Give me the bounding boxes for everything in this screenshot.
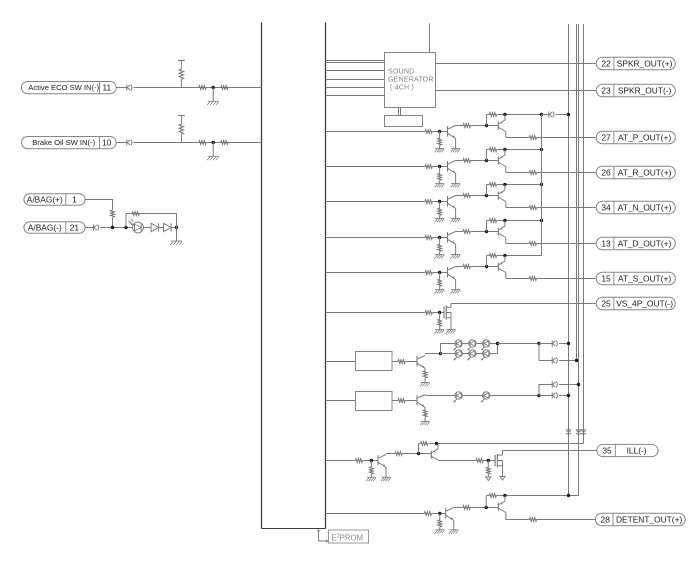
transistor Q PNP AT_R (498, 150, 506, 167)
wire AT_R output left (506, 172, 530, 174)
resistor AT_R base-emitter (489, 148, 496, 152)
resistor DETENT base pulldown (438, 514, 442, 530)
wire DETENT rail left (486, 495, 489, 497)
ground VS_4P source (446, 318, 456, 334)
resistor AT_P input series (425, 130, 432, 134)
svg-text:SPKR_OUT(+): SPKR_OUT(+) (617, 59, 673, 69)
svg-text:13: 13 (601, 239, 611, 249)
svg-text:1: 1 (72, 194, 77, 204)
connector LED B branch1 (552, 392, 557, 398)
transistor Q PNP AT_D (498, 221, 506, 238)
transistor Q NPN AT_N (448, 196, 456, 209)
connector on bus A (566, 430, 571, 434)
svg-text:ILL(-): ILL(-) (627, 446, 647, 456)
wire AT_N rail left segment (487, 184, 490, 186)
pill pin 34 AT_N_OUT(+) (596, 201, 675, 213)
transistor Q NPN DETENT (446, 508, 454, 521)
wire ECU to sound generator 1 (325, 60, 384, 62)
wire AT_R to PNP base (470, 160, 498, 162)
wire ECU to VS_4P input (325, 312, 425, 314)
LED lamp A lower 2 (467, 350, 476, 361)
wire DETENT collector line (454, 507, 463, 509)
wire DETENT PNP collector drop (505, 513, 507, 520)
wire VS_4P output (451, 303, 596, 305)
connector on bus D (581, 430, 586, 434)
node bus A DETENT (567, 494, 570, 497)
wire to NPN B base (405, 400, 417, 402)
node bus A AT supply (567, 113, 570, 116)
wire LED A right riser (497, 344, 499, 354)
wire ECU to sound generator 6 (325, 95, 384, 97)
transistor Q PNP DETENT (498, 496, 506, 513)
wire AT_N to PNP base (470, 195, 498, 197)
svg-text:Active ECO SW IN(-): Active ECO SW IN(-) (28, 83, 99, 92)
resistor ILL base pulldown (370, 461, 374, 478)
wire BrakeOil pill to connector (116, 142, 127, 144)
LED lamp A upper 2 (467, 340, 476, 351)
node AT_D emitter rail node (503, 219, 506, 222)
ground AT_N emitter (451, 208, 461, 222)
wire AT_R base node riser (486, 150, 488, 161)
wire A/BAG LED to diode (143, 227, 151, 229)
connector LED A branch2 (552, 357, 557, 363)
ground AT_P emitter (451, 138, 461, 152)
wire ILL rail left (419, 443, 420, 445)
wire ILL PNP collector drop (438, 460, 440, 462)
node A/BAG junction 2 (124, 226, 127, 229)
wire ILL input to base (363, 460, 378, 462)
pill pin 23 SPKR_OUT(-) (596, 84, 675, 96)
wire A/BAG resistor to node (112, 218, 114, 228)
wire BrakeOil to ECU (134, 142, 262, 144)
wire A/BAG bypass top (126, 213, 177, 215)
resistor DETENT base-emitter (489, 494, 496, 498)
wire ECU to DETENT input (325, 513, 424, 515)
resistor LED row B base (398, 399, 405, 403)
wire ECU to E2PROM (317, 529, 329, 543)
node AT_R emitter rail node (503, 148, 506, 151)
wire ILL drain up (502, 451, 504, 456)
pill pin 25 VS_4P_OUT(-) (596, 297, 675, 309)
wire A/BAG(+) to resistor (85, 200, 112, 210)
resistor BrakeOil series 2 (221, 141, 228, 145)
node BrakeOil filter (212, 141, 215, 144)
wire SPKR_OUT(-) (436, 90, 597, 92)
resistor ActiveECO series 1 (199, 86, 206, 90)
resistor ILL gate series (476, 459, 483, 463)
node AT_P emitter rail node (503, 113, 506, 116)
pill pin 10 Brake Oil SW IN(-) (22, 137, 117, 149)
wire LED B branch1 to bus (559, 395, 569, 397)
LED opto A/BAG (129, 219, 144, 233)
node AT_D rail on supply vertical (540, 219, 543, 222)
resistor AT_D input series (425, 236, 432, 240)
wire AT_P input to base (432, 131, 447, 133)
resistor ActiveECO series 2 (221, 86, 228, 90)
wire AT_P rail left segment (487, 114, 490, 116)
wire AT_D base node riser (486, 221, 488, 232)
svg-text:22: 22 (601, 59, 611, 69)
transistor Q PNP AT_P (498, 115, 506, 132)
resistor AT_N input series (425, 200, 432, 204)
resistor VS_4P input series (425, 311, 432, 315)
svg-text:23: 23 (601, 86, 611, 96)
wire ILL gate line left (439, 460, 476, 462)
svg-text:AT_N_OUT(+): AT_N_OUT(+) (618, 203, 672, 213)
node ILL rail node (435, 442, 438, 445)
ground ILL gate pulldown triangle (486, 477, 491, 481)
wire AT_R PNP collector drop (505, 167, 507, 173)
wire AT_R rail left segment (487, 149, 490, 151)
node ILL base (370, 459, 373, 462)
resistor AT_P base-emitter (489, 113, 496, 117)
node AT_D PNP base node (485, 230, 488, 233)
ground AT_S pulldown (435, 290, 445, 294)
ground AT_N pulldown (435, 219, 445, 223)
node AT_N emitter rail node (503, 183, 506, 186)
transistor Q NPN LED row A (417, 356, 425, 369)
wire AT_N PNP collector drop (505, 202, 507, 208)
wire ILL gate line right (483, 460, 495, 462)
svg-text:10: 10 (102, 138, 112, 148)
wire AT_S collector line (455, 266, 463, 268)
wire AT_R output right (537, 172, 597, 174)
node AT_N rail on supply vertical (540, 183, 543, 186)
resistor AT_D base pulldown (438, 238, 442, 255)
wire ECU to buffer A (325, 361, 355, 363)
transistor Q MOSFET VS_4P (444, 306, 451, 320)
resistor AT_S collector-PNP base (463, 265, 470, 269)
wire AT_S input to base (432, 272, 447, 274)
wire ILL collector line (386, 453, 395, 455)
wire DETENT input to base (432, 513, 446, 515)
wire AT_N collector line (455, 195, 463, 197)
resistor AT_S input series (425, 271, 432, 275)
ground ILL emitter (381, 467, 391, 481)
wire AT_S output right (537, 278, 597, 280)
transistor Q NPN AT_P (448, 126, 456, 139)
wire AT_S base node riser (486, 256, 488, 267)
ground AT_R pulldown (435, 184, 445, 188)
wire ECU to AT_D driver input (325, 237, 425, 239)
wire ECU to sound generator 3 (325, 70, 384, 72)
svg-text:34: 34 (601, 203, 611, 213)
wire A/BAG bypass riser left (125, 214, 127, 228)
resistor DETENT input series (424, 512, 431, 516)
node AT_P base (438, 130, 441, 133)
node LED B branch (537, 394, 540, 397)
node AT_S base (438, 271, 441, 274)
IC U3 SOUND GENERATOR box (385, 53, 436, 108)
wire ECU to ILL input (325, 460, 355, 462)
resistor AT_S base-emitter (489, 254, 496, 258)
connector on bus C (576, 430, 581, 434)
svg-text:AT_P_OUT(+): AT_P_OUT(+) (618, 133, 671, 143)
resistor AT_D base-emitter (489, 219, 496, 223)
wire AT_P rail to bus connector (542, 114, 549, 116)
wire LED A branch1 to bus (559, 343, 569, 345)
wire AT_D output left (506, 243, 530, 245)
svg-text:AT_S_OUT(+): AT_S_OUT(+) (618, 274, 671, 284)
IC U1 main ECU block left edge (261, 23, 263, 529)
wire ECU to sound generator 2 (325, 62, 384, 64)
wire A/BAG(-) pill to connector (85, 227, 93, 229)
wire ILL output (503, 450, 597, 452)
wire ECU to AT_N driver input (325, 201, 425, 203)
resistor DETENT output series (529, 518, 536, 522)
ground AT_P pulldown (435, 149, 445, 153)
wire AT_S to PNP base (470, 266, 498, 268)
pill pin 35 ILL(-) (597, 444, 658, 456)
wire LED B string (425, 395, 539, 397)
wire AT_R input to base (432, 166, 447, 168)
wire AT_R collector line (455, 160, 463, 162)
speaker box below sound generator (385, 108, 423, 127)
wire AT_S output left (506, 278, 530, 280)
transistor Q NPN AT_D (448, 232, 456, 245)
power bus line C (578, 24, 580, 496)
ground A/BAG (170, 228, 182, 245)
wire LED B branch2 rise (538, 385, 540, 396)
svg-text:A/BAG(-): A/BAG(-) (28, 223, 62, 233)
node AT_P rail to supply (540, 113, 543, 116)
node ILL gate (487, 459, 490, 462)
resistor ILL base-emitter (421, 442, 428, 446)
node DETENT base (438, 512, 441, 515)
wire ECU to sound generator 4 (325, 79, 384, 81)
svg-text:DETENT_OUT(+): DETENT_OUT(+) (616, 515, 683, 525)
wire LED A lower string (441, 353, 498, 355)
ground AT_D emitter (451, 244, 461, 258)
resistor AT_P collector-PNP base (463, 124, 470, 128)
node VS_4P gate (438, 311, 441, 314)
ground BrakeOil (207, 143, 219, 161)
svg-text:SPKR_OUT(-): SPKR_OUT(-) (618, 86, 672, 96)
ground ILL pulldown (366, 477, 376, 481)
svg-text:( 4CH ): ( 4CH ) (390, 84, 414, 92)
ground LED A emitter (420, 368, 430, 386)
wire ILL rail (429, 443, 584, 445)
svg-text:26: 26 (601, 168, 611, 178)
svg-text:AT_D_OUT(+): AT_D_OUT(+) (618, 239, 672, 249)
power bus line B (576, 24, 578, 361)
ground AT_S emitter (451, 279, 461, 293)
wire LED B branch1 (539, 395, 552, 397)
transistor Q NPN AT_R (448, 161, 456, 174)
wire AT_P output left (506, 137, 530, 139)
diode D2 A/BAG (164, 223, 172, 231)
node AT_S PNP base node (485, 265, 488, 268)
wire AT_P output right (537, 137, 597, 139)
resistor AT_D collector-PNP base (463, 230, 470, 234)
wire AT_N rail right segment (497, 184, 542, 186)
buffer block A (356, 352, 393, 371)
wire ILL base node riser (418, 444, 420, 454)
ground AT_R emitter (451, 173, 461, 187)
wire AT_S rail left segment (487, 255, 490, 257)
LED lamp B 2 (481, 392, 490, 403)
wire LED A riser (440, 344, 442, 354)
svg-text:AT_R_OUT(+): AT_R_OUT(+) (618, 168, 672, 178)
resistor BrakeOil series 1 (199, 141, 206, 145)
wire AT_N output right (537, 207, 597, 209)
node AT_P PNP base node (485, 124, 488, 127)
wire LED A branch1 (539, 343, 552, 345)
wire LED A branch2 drop (538, 344, 540, 361)
node DETENT rail node (503, 494, 506, 497)
pill pin 22 SPKR_OUT(+) (596, 57, 675, 69)
node A/BAG junction 1 (111, 226, 114, 229)
node AT_D base (438, 236, 441, 239)
transistor Q NPN LED row B (417, 395, 425, 408)
wire ActiveECO pill to connector (116, 87, 127, 89)
pill pin 28 DETENT_OUT(+) (595, 513, 685, 525)
ground AT_D pulldown (435, 255, 445, 259)
transistor Q PNP AT_S (498, 256, 506, 273)
node DETENT PNP base node (485, 506, 488, 509)
connector ActiveECO (127, 84, 132, 90)
diode D1 A/BAG (151, 223, 159, 231)
IC U1 main ECU block bottom edge (262, 528, 326, 530)
wire ECU to AT_P driver input (325, 131, 425, 133)
wire sound generator top pin (429, 24, 431, 53)
node ILL PNP base node (417, 452, 420, 455)
svg-text:E2PROM: E2PROM (332, 533, 364, 542)
pill pin 26 AT_R_OUT(+) (596, 166, 675, 178)
pill pin 21 A/BAG(-) (24, 222, 85, 233)
resistor AT_N base-emitter (489, 183, 496, 187)
ground VS_4P pulldown (435, 330, 445, 334)
transistor Q NPN ILL (378, 455, 386, 468)
svg-text:25: 25 (601, 299, 611, 309)
wire LED A to branch node (498, 343, 540, 345)
node bus A LED B (567, 394, 570, 397)
wire SPKR_OUT(+) (436, 63, 597, 65)
transistor Q PNP AT_N (498, 185, 506, 202)
ground DETENT emitter (449, 520, 459, 533)
LED lamp A upper 3 (481, 340, 490, 351)
wire AT_P to PNP base (470, 125, 498, 127)
wire DETENT to PNP base (470, 507, 498, 509)
resistor VS_4P gate pulldown (438, 313, 442, 330)
node AT_R rail on supply vertical (540, 148, 543, 151)
wire AT_D input to base (432, 237, 447, 239)
resistor AT_P base pulldown (438, 132, 442, 149)
svg-text:28: 28 (601, 515, 611, 525)
wire connector to bus A (556, 114, 569, 116)
wire ECU to AT_R driver input (325, 166, 425, 168)
transistor Q MOSFET ILL (495, 454, 502, 467)
wire A/BAG(-) to LED (100, 227, 132, 229)
node bus A LED A (567, 342, 570, 345)
svg-text:GENERATOR: GENERATOR (388, 76, 434, 84)
wire ECU to sound generator 5 (325, 87, 384, 89)
wire AT_P rail right segment (497, 114, 542, 116)
svg-text:21: 21 (70, 223, 80, 233)
resistor ILL gate pulldown (486, 461, 490, 477)
ground LED B emitter (420, 407, 430, 425)
connector LED B branch2 (552, 381, 557, 387)
wire buffer A out (392, 361, 398, 363)
wire ActiveECO to ECU (134, 87, 262, 89)
wire A/BAG diode gap (159, 227, 164, 229)
pill pin 27 AT_P_OUT(+) (596, 131, 675, 143)
wire LED B branch2 to bus (559, 384, 579, 386)
wire VS_4P drain up (450, 304, 452, 308)
node bus C LED B (577, 383, 580, 386)
resistor AT_R base pulldown (438, 167, 442, 184)
wire A/BAG to ground node (171, 227, 177, 229)
resistor ActiveECO pull-up (178, 61, 185, 88)
resistor DETENT collector-PNP base (463, 506, 470, 510)
connector A/BAG(-) (94, 224, 99, 230)
power bus line D (583, 24, 585, 444)
pill pin 15 AT_S_OUT(+) (596, 272, 675, 284)
wire ECU to buffer B (325, 400, 355, 402)
wire ILL to PNP base (402, 453, 431, 455)
resistor AT_S output series (529, 277, 536, 281)
wire AT_D to PNP base (470, 231, 498, 233)
wire AT_D PNP collector drop (505, 238, 507, 244)
wire AT_D collector line (455, 231, 463, 233)
svg-text:27: 27 (601, 133, 611, 143)
wire DETENT output left (506, 519, 530, 521)
resistor ILL input series (355, 459, 362, 463)
resistor AT_N base pulldown (438, 202, 442, 219)
LED lamp B 1 (453, 392, 462, 403)
wire AT_S PNP collector drop (505, 273, 507, 279)
wire DETENT base node riser (485, 496, 487, 508)
wire AT_P collector line (455, 125, 463, 127)
wire AT_P PNP collector drop (505, 132, 507, 138)
wire AT_D rail left segment (487, 220, 490, 222)
wire LED A upper string (441, 343, 498, 345)
wire AT_D rail right segment (497, 220, 542, 222)
LED lamp A lower 3 (481, 350, 490, 361)
ground ILL source triangle (500, 466, 505, 480)
wire LED B branch2 (539, 384, 552, 386)
resistor A/BAG bypass (132, 212, 139, 216)
connector LED A branch1 (552, 340, 557, 346)
resistor A/BAG series vertical (111, 210, 115, 217)
pill pin 13 AT_D_OUT(+) (596, 237, 675, 249)
IC U2 E2PROM box (329, 530, 369, 543)
connector BrakeOil (127, 139, 132, 145)
ground DETENT pulldown (435, 530, 445, 534)
node LED A join (496, 342, 499, 345)
node ActiveECO filter (212, 86, 215, 89)
LED lamp A lower 1 (453, 350, 462, 361)
node AT_R base (438, 165, 441, 168)
resistor AT_R input series (425, 165, 432, 169)
resistor AT_N collector-PNP base (463, 194, 470, 198)
node LED A split (439, 352, 442, 355)
resistor BrakeOil pull-up (178, 116, 185, 143)
node AT_N base (438, 200, 441, 203)
IC U1 main ECU block right edge (325, 23, 327, 529)
ground ActiveECO (207, 88, 219, 106)
wire to NPN A base (405, 361, 417, 363)
wire LED A branch2 (539, 360, 552, 362)
transistor Q PNP ILL (431, 444, 439, 461)
wire DETENT output right (537, 519, 596, 521)
node bus B LED A (575, 359, 578, 362)
resistor AT_P output series (529, 136, 536, 140)
svg-text:15: 15 (601, 274, 611, 284)
node LED A branch (537, 342, 540, 345)
transistor Q NPN AT_S (448, 267, 456, 280)
pill pin 11 Active ECO SW IN(-) (22, 82, 117, 94)
